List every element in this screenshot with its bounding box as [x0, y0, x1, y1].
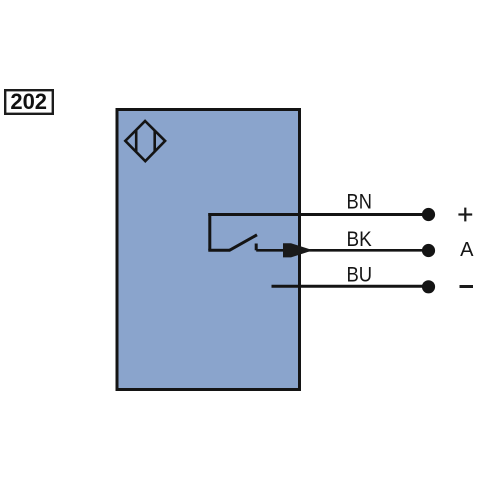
svg-text:BN: BN: [347, 191, 372, 214]
terminal label +: [458, 208, 472, 222]
switch contact (output stage): [208, 213, 257, 251]
svg-text:202: 202: [10, 89, 47, 114]
wire BU: [272, 285, 429, 288]
wire: short horizontal at contact bottom: [208, 249, 229, 252]
proximity sensor symbol (diamond): [125, 121, 165, 161]
svg-text:BK: BK: [347, 228, 372, 251]
fixed contact tick: [255, 244, 258, 251]
svg-text:BU: BU: [347, 264, 373, 287]
figure label box 202: [5, 89, 53, 114]
switch blade: [229, 235, 257, 251]
svg-text:A: A: [460, 239, 474, 261]
terminal dot BU: [422, 280, 435, 293]
output arrow: [283, 243, 313, 257]
wire BN: [208, 213, 428, 216]
wire BK: [256, 249, 428, 252]
wire: vertical from BN line to contact: [208, 213, 211, 250]
sensor body: [117, 110, 300, 390]
terminal dot BK: [422, 244, 435, 257]
terminal label -: [460, 285, 474, 288]
terminal dot BN: [422, 208, 435, 221]
